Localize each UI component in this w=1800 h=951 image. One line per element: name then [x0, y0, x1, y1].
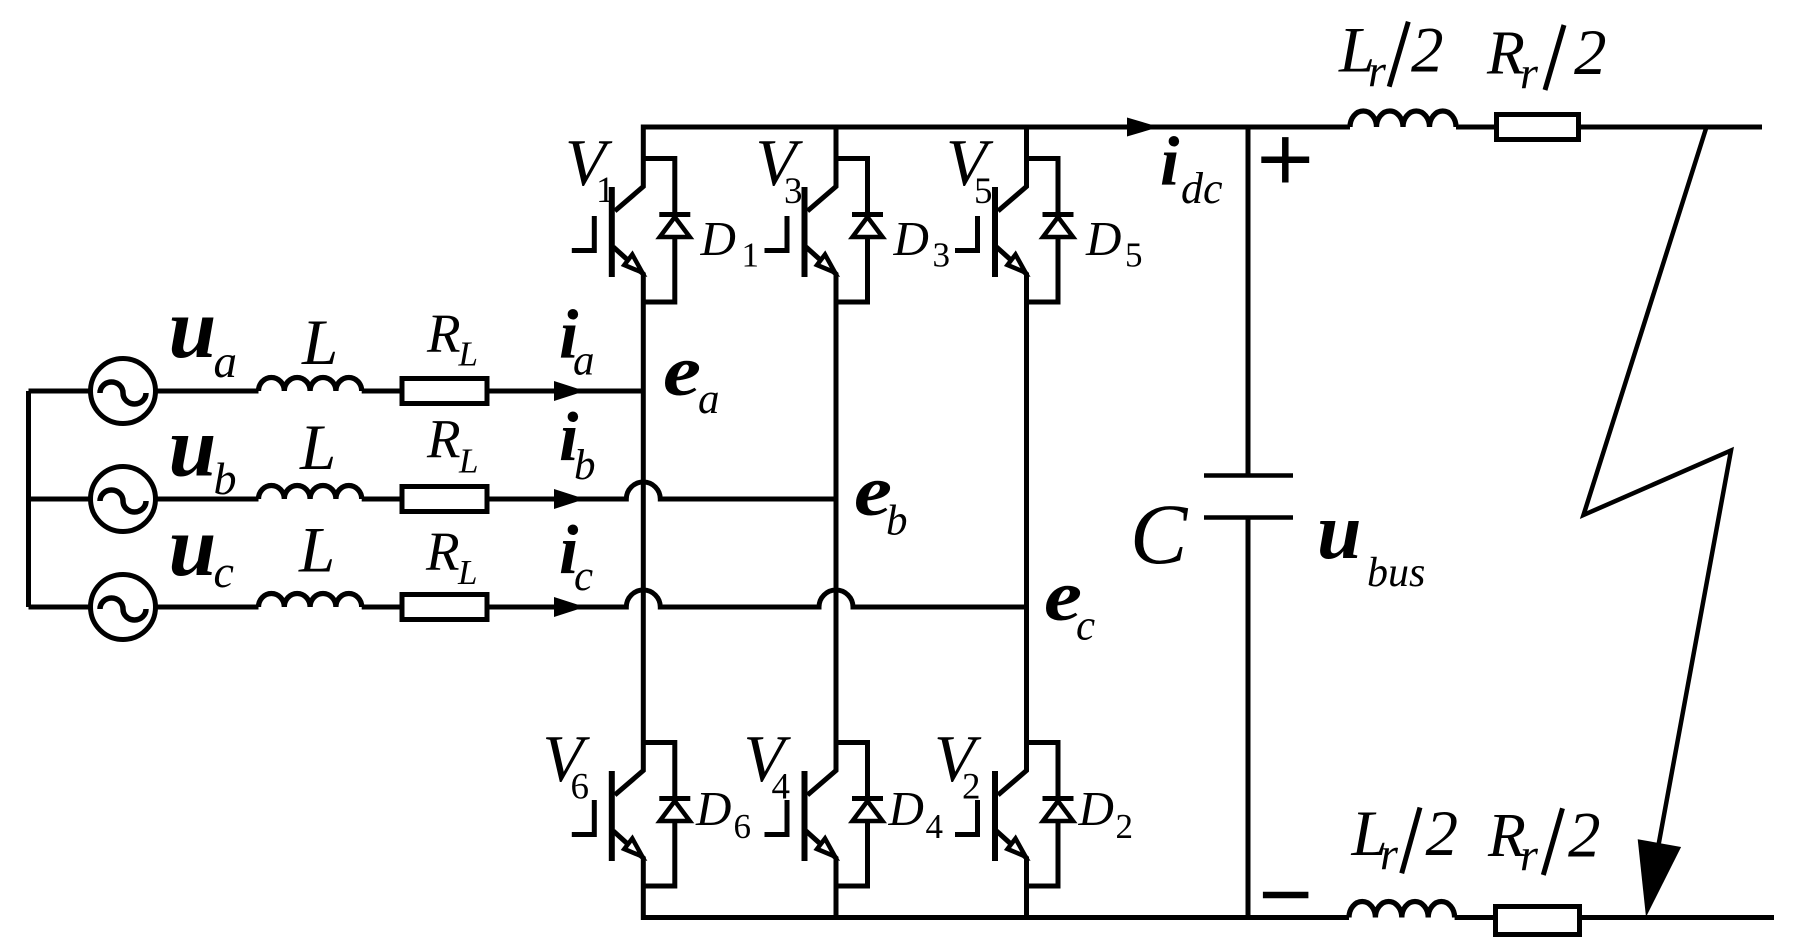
label i_a: [559, 296, 595, 384]
wire: neutral bus to source u_b: [29, 497, 92, 502]
resistor R_r/2 (top): [1497, 115, 1579, 140]
anti-parallel diode D3: [836, 159, 883, 303]
svg-text:c: c: [214, 546, 234, 597]
svg-text:c: c: [1076, 603, 1095, 650]
anti-parallel diode D6: [643, 743, 690, 887]
label L (phase a): [301, 307, 338, 379]
label i_b: [559, 399, 596, 489]
top DC bus wire (+): [643, 127, 1762, 159]
wire: phase c from resistor to node e_c (hops over legs a and b): [489, 590, 1027, 607]
anti-parallel diode D4: [836, 743, 883, 887]
wire: leg c middle (upper cell to lower cell, node e_c): [1024, 302, 1029, 743]
svg-text:2: 2: [1116, 807, 1134, 846]
current arrow i_a: [554, 381, 585, 401]
svg-text:c: c: [574, 553, 593, 600]
svg-text:L: L: [458, 442, 478, 481]
svg-text:a: a: [573, 338, 595, 385]
label L_r/2 (bottom): [1351, 798, 1459, 879]
label R_L (phase c): [425, 521, 477, 592]
label u_b: [169, 399, 237, 504]
resistor R_L (phase a): [402, 379, 487, 404]
svg-text:2: 2: [1568, 800, 1601, 872]
inductor L (phase b): [259, 486, 362, 500]
AC source u_a: [91, 359, 156, 424]
svg-text:5: 5: [974, 171, 993, 212]
label i_c: [559, 512, 593, 600]
IGBT V5: [955, 159, 1027, 303]
label D3: [893, 211, 951, 275]
label D5: [1085, 211, 1143, 275]
svg-text:u: u: [1317, 488, 1362, 576]
wire: leg b lower (V4 to rail): [834, 886, 839, 918]
label u_bus: [1317, 488, 1425, 596]
svg-text:R: R: [426, 303, 461, 364]
svg-text:3: 3: [933, 236, 951, 275]
svg-text:D: D: [695, 781, 731, 836]
label L (phase b): [299, 412, 336, 484]
label V1: [565, 126, 615, 211]
svg-text:C: C: [1130, 486, 1189, 582]
svg-text:5: 5: [1125, 236, 1143, 275]
svg-text:u: u: [169, 280, 217, 376]
svg-text:6: 6: [734, 807, 752, 846]
label u_c: [169, 498, 234, 597]
label D1: [700, 211, 760, 275]
AC source u_c: [91, 575, 156, 640]
anti-parallel diode D5: [1027, 159, 1074, 303]
resistor R_L (phase c): [402, 595, 487, 620]
wire: source u_b to inductor L: [156, 497, 259, 502]
svg-text:4: 4: [926, 807, 944, 846]
wire: leg c lower (V2 to rail): [1024, 886, 1029, 918]
svg-text:b: b: [574, 442, 596, 489]
label V4: [744, 722, 792, 808]
neutral bus wire (left vertical): [26, 391, 31, 607]
label D6: [695, 781, 751, 846]
svg-text:6: 6: [571, 767, 590, 808]
load lightning-bolt arrow: [1584, 129, 1732, 918]
label R_L (phase b): [426, 408, 478, 480]
plus sign (+) of DC bus: [1261, 137, 1309, 182]
svg-text:2: 2: [1411, 15, 1444, 87]
svg-text:L: L: [298, 514, 335, 586]
svg-text:3: 3: [784, 171, 803, 212]
label V3: [756, 126, 804, 212]
label u_a: [169, 280, 238, 388]
svg-text:2: 2: [1574, 17, 1607, 89]
svg-text:D: D: [888, 781, 924, 836]
svg-text:i: i: [1160, 124, 1180, 201]
wire: source u_a to inductor L: [156, 389, 259, 394]
svg-text:r: r: [1368, 45, 1387, 96]
label D2: [1078, 781, 1134, 846]
IGBT V4: [765, 743, 837, 887]
AC source u_b: [91, 467, 156, 532]
wire: phase b from resistor to node e_b (hops over leg a): [489, 482, 836, 499]
wire: leg b middle (upper cell to lower cell, node e_b): [834, 302, 839, 743]
svg-text:R: R: [425, 521, 460, 582]
svg-text:D: D: [700, 211, 736, 266]
inductor L_r/2 (top): [1350, 111, 1456, 127]
wire: source u_c to inductor L: [156, 605, 259, 610]
svg-text:a: a: [698, 376, 720, 423]
label L (phase c): [298, 514, 335, 586]
current arrow i_c: [554, 597, 585, 617]
svg-text:R: R: [426, 408, 461, 469]
IGBT V1: [572, 159, 644, 303]
svg-text:L: L: [299, 412, 336, 484]
svg-text:L: L: [301, 307, 338, 379]
svg-text:4: 4: [772, 767, 791, 808]
svg-text:L: L: [458, 334, 478, 373]
node e_b label: [854, 451, 908, 545]
inductor L (phase c): [259, 594, 362, 608]
label L_r/2 (top): [1338, 15, 1444, 96]
inductor L (phase a): [259, 378, 362, 392]
wire: phase a from resistor to node e_a: [489, 389, 643, 394]
svg-text:u: u: [169, 498, 217, 594]
wire: neutral bus to source u_c: [29, 605, 92, 610]
wire: leg b upper (rail to V3): [834, 127, 839, 159]
wire: neutral bus to source u_a: [29, 389, 92, 394]
wire: inductor L to resistor R_L (phase a): [362, 389, 401, 394]
node e_c label: [1044, 556, 1095, 650]
label V5: [946, 126, 994, 212]
wire: inductor L to resistor R_L (phase c): [362, 605, 401, 610]
svg-text:dc: dc: [1181, 164, 1223, 213]
label R_L (phase a): [426, 303, 478, 373]
IGBT V6: [572, 743, 644, 887]
svg-text:b: b: [214, 453, 237, 504]
svg-text:r: r: [1380, 828, 1399, 879]
anti-parallel diode D2: [1027, 743, 1074, 887]
node e_a label: [663, 331, 720, 423]
current arrow i_dc on top rail: [1127, 118, 1159, 137]
svg-text:1: 1: [596, 170, 615, 211]
svg-text:e: e: [663, 331, 701, 411]
svg-text:L: L: [457, 553, 477, 592]
label V6: [543, 722, 591, 808]
label R_r/2 (top): [1486, 17, 1607, 98]
svg-text:D: D: [1085, 211, 1121, 266]
label D4: [888, 781, 944, 846]
svg-text:2: 2: [962, 767, 981, 808]
resistor R_r/2 (bottom): [1496, 907, 1580, 935]
inductor L_r/2 (bottom): [1349, 902, 1455, 918]
IGBT V3: [765, 159, 837, 303]
wire: inductor L to resistor R_L (phase b): [362, 497, 401, 502]
svg-text:bus: bus: [1367, 550, 1425, 596]
svg-text:r: r: [1520, 47, 1539, 98]
svg-text:2: 2: [1426, 798, 1459, 870]
svg-text:1: 1: [742, 236, 760, 275]
svg-text:D: D: [1078, 781, 1114, 836]
IGBT V2: [955, 743, 1027, 887]
label i_dc: [1160, 124, 1223, 214]
wire: leg a middle (upper cell to lower cell, node e_a): [641, 302, 646, 743]
minus sign (-) of DC bus: [1263, 892, 1309, 899]
capacitor C: [1204, 127, 1293, 918]
label R_r/2 (bottom): [1487, 800, 1601, 880]
label C: [1130, 486, 1189, 582]
current arrow i_b: [554, 489, 585, 509]
wire: leg c upper (rail to V5): [1024, 127, 1029, 159]
svg-text:b: b: [886, 498, 908, 545]
svg-text:r: r: [1520, 829, 1539, 880]
svg-text:u: u: [169, 399, 217, 495]
svg-text:D: D: [893, 211, 929, 266]
anti-parallel diode D1: [643, 159, 690, 303]
label V2: [934, 722, 982, 808]
resistor R_L (phase b): [402, 487, 487, 512]
bottom DC bus wire (-): [643, 886, 1774, 918]
svg-text:a: a: [214, 336, 238, 388]
